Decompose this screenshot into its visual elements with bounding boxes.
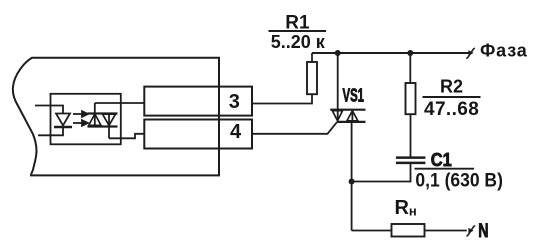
- LED cathode bar: [54, 126, 72, 128]
- pin 3 wire to R1: [252, 94, 312, 103]
- R2 top lead: [409, 53, 411, 83]
- svg-text:R1: R1: [285, 12, 310, 33]
- LED diode: [56, 114, 70, 126]
- svg-text:н: н: [409, 204, 417, 219]
- device enclosure with torn (wavy) left edge: [13, 58, 219, 176]
- wire node A to triac VS1: [337, 53, 339, 121]
- terminal arrow N: [468, 228, 473, 234]
- resistor R2: [406, 83, 416, 114]
- triac VS1 top bar: [330, 109, 365, 111]
- R2 bottom lead to C1: [410, 114, 412, 156]
- triac VS1 left triangle: [332, 111, 342, 121]
- svg-text:N: N: [478, 221, 488, 242]
- svg-text:5..20 к: 5..20 к: [271, 32, 326, 52]
- terminal slash N: [466, 226, 475, 236]
- capacitor C1 top plate: [396, 156, 426, 159]
- opto-triac left triangle: [89, 114, 101, 126]
- R1 top lead: [311, 53, 313, 62]
- triac VS1 right triangle: [347, 111, 358, 121]
- terminal row 4 box: [144, 120, 252, 149]
- svg-text:R2: R2: [440, 76, 463, 96]
- terminal arrow Фаза: [468, 50, 473, 56]
- optocoupler U1 box: [51, 94, 121, 145]
- svg-text:4: 4: [230, 121, 242, 143]
- capacitor C1 bottom plate: [396, 162, 426, 165]
- opto-triac bottom bar: [88, 125, 118, 127]
- load resistor Rn: [392, 224, 425, 237]
- opto-triac wire through left triangle: [94, 103, 96, 127]
- svg-text:47..68: 47..68: [424, 99, 479, 120]
- wire opto to row4 with jog: [109, 134, 144, 139]
- svg-text:Фаза: Фаза: [480, 41, 528, 61]
- light arrow 2: [73, 120, 88, 126]
- resistor R1: [307, 62, 317, 94]
- triac VS1 bottom bar: [337, 121, 366, 123]
- svg-text:3: 3: [229, 91, 240, 113]
- pin 4 wire to gate: [252, 122, 337, 133]
- node junction dot C: [349, 179, 355, 185]
- opto-triac right triangle: [103, 114, 116, 125]
- opto-triac top bar: [88, 112, 118, 114]
- bottom wire to load: [352, 230, 392, 232]
- svg-text:C1: C1: [431, 149, 452, 170]
- phase top wire: [312, 52, 470, 54]
- R2 fraction bar: [423, 96, 481, 98]
- wire opto to row3: [95, 102, 145, 104]
- svg-text:R: R: [395, 197, 410, 219]
- C1 fraction bar: [415, 168, 475, 170]
- node junction dot B: [407, 50, 413, 56]
- terminal slash Фаза: [466, 48, 475, 58]
- wire Rn to N terminal: [425, 230, 467, 232]
- svg-text:VS1: VS1: [343, 84, 365, 105]
- LED cathode wire: [38, 128, 63, 136]
- R1 fraction bar: [269, 30, 327, 32]
- node junction dot A: [335, 50, 341, 56]
- opto-triac wire through right triangle: [108, 114, 110, 139]
- terminal row 3 box: [144, 87, 252, 116]
- triac VS1 main wire down: [351, 111, 354, 231]
- LED anode wire: [35, 106, 63, 114]
- light arrow 1: [73, 111, 88, 117]
- svg-text:0,1 (630 В): 0,1 (630 В): [415, 170, 503, 191]
- C1 bottom wire to node C: [352, 164, 411, 182]
